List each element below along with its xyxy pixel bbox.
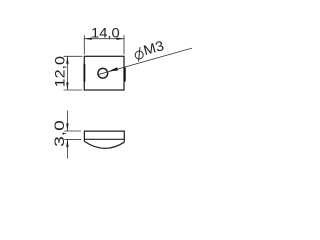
dimension 14,0: dimension line [84,38,124,40]
leader arrowhead [109,67,119,71]
left side tab (thick edge segment) [83,64,85,82]
side view: flat bottom inner line [84,138,124,140]
label diameter symbol: circle [135,51,143,59]
svg-text:3,0: 3,0 [52,120,67,147]
dimension 3,0: extension line bottom [64,138,81,140]
svg-text:14,0: 14,0 [91,25,120,40]
dimension 12,0: dimension line [66,56,68,90]
dimension 12,0: extension line bottom [64,89,83,91]
top view: square body outline [84,56,124,90]
dimension 12,0: top arrowhead [66,56,68,64]
label diameter symbol: slash [139,47,140,61]
leader line to M3 label [97,48,192,75]
dimension 14,0: extension line right [123,35,125,54]
dimension 3,0: lower arrowhead (pointing up) [66,139,68,147]
dimension 14,0: right arrowhead [117,38,125,40]
dimension 3,0: upper dimension line [66,111,68,132]
hole circle M3 [98,68,108,78]
dimension 3,0: extension line top [64,130,81,132]
dimension 14,0: extension line left [83,35,85,54]
dimension 14,0: left arrowhead [84,38,92,40]
right side tab (thick edge segment) [124,67,126,81]
dimension 12,0: extension line top [64,55,83,57]
dimension 3,0: lower dimension line [66,139,68,158]
dimension 12,0: bottom arrowhead [66,83,68,91]
side view: body outline (left, top, right edges) [84,131,124,142]
dimension 3,0: upper arrowhead (pointing down) [66,124,68,132]
side view: dome arc bottom [84,141,124,148]
svg-text:12,0: 12,0 [52,56,67,88]
